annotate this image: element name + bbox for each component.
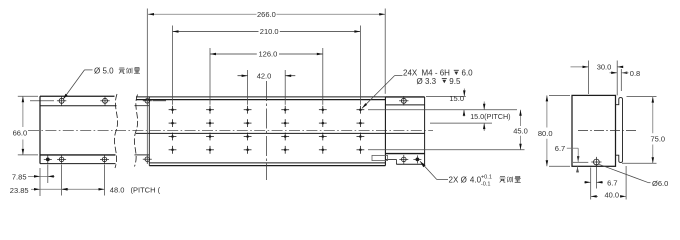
main rail right end edge	[384, 97, 386, 166]
dimension 23.85	[10, 186, 69, 195]
svg-text:75.0: 75.0	[650, 135, 665, 144]
hole B3 circle	[100, 155, 109, 164]
left fragment rail bottom edge	[40, 163, 116, 165]
dimension 0.8	[610, 69, 641, 91]
right bracket gray tab	[372, 155, 388, 160]
end view hole	[591, 157, 601, 167]
dimension 66.0	[13, 96, 38, 155]
dimension 48.0 PITCH	[40, 185, 161, 194]
svg-text:+0.1: +0.1	[481, 175, 492, 181]
svg-text:42.0: 42.0	[257, 71, 272, 80]
end view horizontal centerline	[578, 129, 636, 131]
dimension 15.0 PITCH	[470, 102, 510, 132]
svg-text:6.7: 6.7	[555, 144, 565, 153]
end view flange tab	[616, 98, 623, 163]
dimension 80.0	[538, 95, 570, 166]
dimension 7.85	[12, 173, 55, 182]
right bracket bottom edge	[396, 163, 424, 165]
svg-text:30.0: 30.0	[597, 63, 612, 72]
row r4 extension line	[368, 149, 525, 151]
dimension 45.0	[513, 110, 528, 150]
right bracket bottom hole dot	[413, 155, 421, 163]
svg-text:7.85: 7.85	[12, 173, 27, 182]
rail slot line	[136, 132, 425, 134]
left piece left edge	[39, 96, 41, 163]
dimension 42.0	[238, 70, 296, 105]
hole B2 circle	[57, 155, 66, 164]
right bracket bottom thick edge	[385, 153, 424, 155]
left piece bottom edge right fragment	[135, 154, 150, 156]
end view body outline	[572, 95, 616, 166]
svg-text:48.0: 48.0	[110, 185, 125, 194]
hole B2 extension line	[61, 165, 63, 196]
svg-text:40.0: 40.0	[604, 191, 619, 200]
left piece top edge	[40, 95, 115, 97]
svg-text:15.0: 15.0	[449, 94, 464, 103]
label 2X D4.0 callout	[419, 160, 521, 187]
dimension 6.7 left	[555, 144, 589, 172]
right bracket left edge	[384, 97, 386, 166]
left piece right-edge holes	[143, 96, 152, 163]
rail horizontal centerline	[28, 129, 433, 131]
svg-text:126.0: 126.0	[259, 50, 278, 59]
break line main rail	[134, 95, 137, 167]
dimension 6.7 bottom	[584, 167, 617, 200]
dimension 15.0	[426, 89, 466, 117]
svg-text:210.0: 210.0	[260, 27, 279, 36]
svg-text:6.0: 6.0	[462, 69, 474, 78]
svg-text:45.0: 45.0	[513, 126, 528, 135]
label D5.0 hole callout	[62, 67, 140, 101]
right bracket notch	[385, 159, 396, 164]
svg-text:266.0: 266.0	[257, 10, 276, 19]
svg-text:23.85: 23.85	[10, 186, 29, 195]
svg-text:2X: 2X	[449, 175, 459, 184]
left piece bottom edge	[40, 154, 116, 156]
svg-text:Ø6.0: Ø6.0	[652, 179, 668, 188]
left piece right edge line	[148, 97, 150, 166]
svg-text:(PITCH (: (PITCH (	[131, 185, 161, 194]
svg-text:Ø: Ø	[461, 175, 467, 184]
dimension 126.0	[210, 48, 323, 105]
svg-text:9.5: 9.5	[449, 77, 461, 86]
hole A2 circle	[100, 96, 109, 105]
label D6.0 callout	[599, 164, 669, 188]
svg-text:15.0(PITCH): 15.0(PITCH)	[470, 112, 510, 121]
right bracket bottom hole circle	[399, 155, 408, 164]
main rail top edges	[136, 97, 385, 100]
main rail bottom edges	[149, 163, 385, 166]
dimension 75.0	[622, 97, 665, 164]
break line left piece	[114, 94, 117, 168]
hole B1 dot	[44, 155, 52, 163]
hole B3 extension line	[104, 165, 106, 196]
svg-text:0.8: 0.8	[630, 69, 640, 78]
dimension 30.0	[571, 61, 624, 96]
svg-text:Ø 3.3: Ø 3.3	[417, 77, 437, 86]
svg-text:6.7: 6.7	[607, 178, 617, 187]
row r2 extension line	[430, 122, 492, 124]
left piece strip line right fragment	[135, 105, 150, 107]
label 24X M4-6H callout	[361, 69, 473, 110]
svg-text:Ø 5.0: Ø 5.0	[94, 67, 114, 76]
row r1 extension line	[368, 109, 517, 111]
right bracket strip line	[385, 104, 424, 106]
svg-text:80.0: 80.0	[538, 129, 553, 138]
dimension 40.0	[591, 166, 626, 200]
hole row tick right fragment	[153, 100, 167, 102]
svg-text:66.0: 66.0	[13, 129, 28, 138]
svg-text:-0.1: -0.1	[481, 182, 491, 188]
left edge extension line	[39, 168, 41, 196]
dimension 266.0	[147, 9, 385, 164]
hole B1 extension line	[47, 165, 49, 184]
hole A1 circle	[57, 96, 66, 105]
hole A1 row tick	[30, 100, 54, 102]
right bracket top edge	[385, 96, 424, 98]
rail vertical centerline	[266, 81, 268, 180]
dimension 210.0	[173, 26, 361, 105]
right bracket top hole	[399, 96, 408, 105]
svg-text:4.0: 4.0	[470, 175, 482, 184]
24X M4 hole grid	[169, 106, 365, 154]
right bracket right edge	[424, 97, 426, 164]
left piece strip line	[40, 105, 117, 107]
